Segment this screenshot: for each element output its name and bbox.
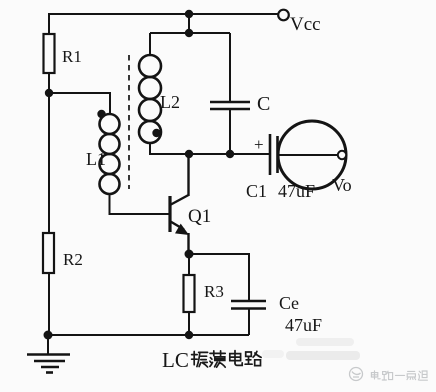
node collector tap <box>185 150 193 158</box>
inductor L2 <box>139 55 161 143</box>
wire C bottom <box>229 110 231 155</box>
resistor R2 <box>43 233 54 273</box>
svg-text:R2: R2 <box>63 250 83 269</box>
wire tank top rail <box>150 32 230 34</box>
wire emitter to Ce <box>189 254 249 301</box>
wire C top <box>229 33 231 101</box>
wire left column down <box>48 93 50 233</box>
svg-text:L1: L1 <box>86 149 106 169</box>
svg-text:R3: R3 <box>204 282 224 301</box>
wire L1 bottom to base <box>110 194 170 214</box>
capacitor Ce <box>231 300 266 303</box>
wire collector <box>187 154 189 196</box>
wire R2 bottom <box>48 273 50 336</box>
svg-text:C1: C1 <box>246 181 267 201</box>
wire bottom rail <box>48 334 249 336</box>
terminal Vcc <box>278 10 289 21</box>
wire node to L1 top <box>49 93 110 115</box>
wire R3 bottom <box>188 312 190 335</box>
svg-text:C: C <box>257 93 270 115</box>
caption char lu <box>245 351 261 365</box>
node emitter <box>185 250 194 259</box>
output transducer <box>278 121 346 189</box>
node R3 bottom <box>185 331 193 339</box>
svg-text:LC: LC <box>162 348 189 372</box>
resistor R3 <box>184 275 195 312</box>
capacitor C1 <box>269 134 272 175</box>
node top rail <box>185 10 193 18</box>
caption char dian <box>230 351 242 366</box>
wire top tap <box>188 14 190 33</box>
svg-text:L2: L2 <box>160 92 180 112</box>
node ground <box>44 331 53 340</box>
wire through transducer <box>278 154 338 156</box>
svg-text:47uF: 47uF <box>285 315 322 335</box>
transistor Q1 <box>170 195 189 232</box>
node tank top <box>185 29 193 37</box>
wire L2 top <box>149 33 151 56</box>
wire L2 bottom <box>149 143 151 155</box>
capacitor C <box>210 101 250 104</box>
svg-text:Ce: Ce <box>279 293 299 313</box>
resistor R1 <box>44 34 55 73</box>
watermark smudge A <box>296 338 354 346</box>
caption char dang <box>210 351 225 367</box>
phase dot L1 <box>97 110 105 118</box>
wire tank bottom rail <box>150 153 270 155</box>
transformer core dashed <box>128 55 130 189</box>
svg-text:+: + <box>254 135 264 154</box>
watermark text dian lu yi dian tong <box>371 371 427 380</box>
wire Ce bottom <box>248 310 250 336</box>
phase dot L2 <box>152 129 160 137</box>
node C bottom <box>226 150 234 158</box>
wire top rail <box>49 13 278 15</box>
svg-text:Vo: Vo <box>332 175 352 195</box>
caption char zhen <box>192 352 208 368</box>
watermark smudge B <box>286 351 360 360</box>
terminal Vo <box>338 151 346 159</box>
node R1/R2/base-branch <box>45 89 53 97</box>
wire R1 top <box>48 13 50 34</box>
inductor L1 <box>100 114 120 194</box>
svg-text:Q1: Q1 <box>188 206 211 227</box>
wire R1 bottom to node <box>48 73 50 93</box>
svg-text:Vcc: Vcc <box>290 14 321 35</box>
wire R3 top <box>188 254 190 275</box>
watermark logo icon <box>350 368 363 381</box>
svg-text:R1: R1 <box>62 47 82 66</box>
wire emitter <box>187 233 189 254</box>
ground <box>27 335 70 373</box>
